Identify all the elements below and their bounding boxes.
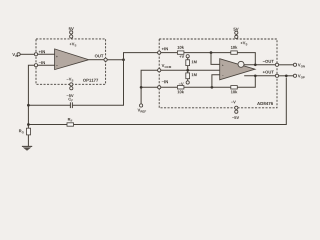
wire RF row to +OUT junction [74, 78, 287, 125]
supply -V terminal of divider [179, 81, 190, 85]
wire R3 to VOCM row [187, 66, 189, 73]
pin +OUT of U2 [275, 74, 278, 77]
resistor R5 10k (input bottom) [177, 86, 184, 94]
pin -OUT of U2 [275, 63, 278, 66]
supply +V terminal of divider [179, 55, 189, 58]
wire +IN pin to op-amp [38, 53, 55, 55]
wire RF row left segment [28, 124, 67, 126]
node -OUT feedback junction [254, 63, 257, 66]
wire -OUT pin to VON terminal [279, 64, 294, 66]
wire RG to ground [27, 135, 29, 146]
wire -IN to feedback column [28, 65, 34, 126]
supply +Vs stub of U2 (5V) [234, 28, 248, 46]
ground [22, 146, 32, 150]
node junction CF row on column [27, 104, 30, 107]
label AD8476 [257, 102, 273, 105]
capacitor CF [68, 98, 72, 108]
wire junction A down to CF row [72, 60, 123, 105]
wire node C up to amp bottom input [212, 75, 220, 88]
supply -Vs stub of U1 (-5V) [67, 78, 74, 97]
wire VOCM row to amp [161, 69, 220, 71]
resistor R2 10k (feedback top) [231, 46, 238, 55]
amp U2 triangle [220, 59, 255, 80]
op-amp U1 dashed box (OP1177) [36, 39, 106, 84]
wire R2 to -OUT column [237, 53, 255, 65]
inversion bubble on -OUT output [238, 61, 244, 67]
pin VOCM of U2 [158, 64, 171, 72]
node Vin input terminal [12, 53, 20, 57]
amp U2 dashed box (AD8476) [159, 39, 277, 108]
wire R5 to node C [184, 86, 231, 88]
label OP1177 [83, 79, 98, 82]
supply -Vs stub of U2 (-5V) [231, 101, 239, 119]
resistor R3 1M [186, 60, 197, 66]
wire -IN pin to op-amp [38, 64, 55, 66]
wire +OUT pin to VOP terminal [279, 75, 294, 77]
wire Vin to +IN pin [20, 53, 34, 55]
wire R1 to node B [184, 52, 231, 54]
wire junction A up to U2 +IN pin [124, 53, 158, 60]
node A junction on OUT wire [122, 58, 125, 61]
node junction +OUT wire to RF [285, 74, 288, 77]
pin OUT of U1 [104, 58, 107, 61]
node divider midpoint junction [186, 69, 189, 72]
wire CF to feedback column [28, 104, 70, 106]
resistor RF [67, 118, 74, 126]
pin +IN of U2 [158, 47, 168, 54]
resistor R4 1M [186, 73, 197, 79]
wire column to RG [27, 126, 29, 128]
wire +IN row to R1 [161, 52, 178, 54]
op-amp U1 triangle [55, 49, 89, 70]
node VREF terminal [138, 104, 147, 113]
node junction VREF column on -IN row [140, 86, 143, 89]
wire +V to R3 [187, 58, 189, 60]
wire U1 output [89, 54, 104, 59]
resistor RG [19, 128, 31, 135]
wire VREF column up to VOCM pin [141, 70, 158, 104]
node C junction (-IN row) [211, 86, 214, 89]
node VOP output terminal [293, 74, 304, 78]
pin +IN of U1 [34, 50, 45, 56]
node junction RF row on column [27, 123, 30, 126]
pin -IN of U2 [158, 80, 168, 89]
wire +OUT row [244, 71, 275, 76]
wire R4 to -V [187, 79, 189, 82]
wire U1 OUT to junction A [107, 59, 123, 61]
wire -IN row to R5 [161, 86, 178, 88]
wire -OUT row [244, 60, 275, 65]
resistor R6 10k (feedback bottom) [231, 86, 238, 94]
wire node B down to amp top input [211, 53, 220, 65]
node B junction (+IN row) [210, 51, 213, 54]
resistor R1 10k (input top) [177, 46, 184, 55]
pin -IN of U1 [34, 61, 45, 67]
wire VREF junction to -IN pin [141, 86, 158, 88]
supply +Vs stub of U1 (5V) [69, 27, 77, 46]
node +OUT feedback junction [254, 74, 257, 77]
node VON output terminal [293, 63, 304, 67]
wire R6 to +OUT column [237, 76, 255, 88]
